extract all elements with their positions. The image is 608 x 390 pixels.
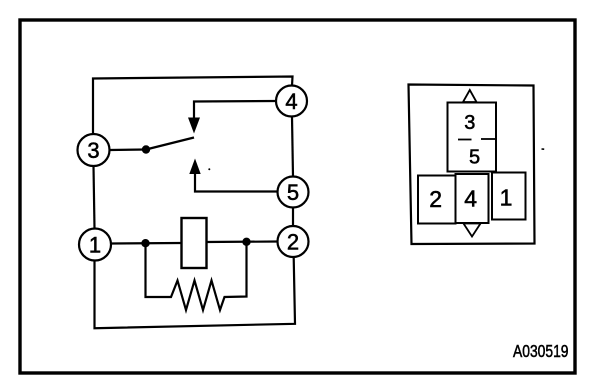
svg-text:4: 4 (285, 89, 297, 114)
svg-text:1: 1 (500, 185, 513, 211)
wire: terminal 3 bottom to terminal 1 top (94, 166, 95, 229)
connector cavity pin 2 (418, 176, 456, 224)
lower fixed contact arrow (points up) (189, 159, 200, 175)
relay coil (rectangle) (182, 218, 207, 268)
connector cavity pin 1 (492, 173, 526, 220)
connector outline (409, 85, 535, 245)
svg-text:3: 3 (87, 138, 99, 163)
wire: terminal 4 bottom to terminal 5 top (292, 117, 293, 177)
connector cavity pin 4 (456, 174, 489, 223)
wire: lower fixed contact to terminal 5 (195, 174, 277, 192)
resistor (zigzag) in parallel with coil (146, 242, 247, 310)
connector cavity for pins 3/5 (448, 103, 497, 172)
terminal 2 (278, 226, 309, 257)
divider dash between 3 and 5 (458, 139, 472, 141)
upper fixed contact arrow (points down) (188, 118, 200, 134)
junction dot: switch pivot (142, 145, 150, 153)
terminal 4 (276, 86, 307, 117)
junction dot right of coil (242, 238, 250, 246)
svg-text:2: 2 (429, 186, 442, 212)
wire: terminal 1 to coil (112, 242, 182, 245)
wire: terminal 4 to upper fixed contact (194, 101, 276, 118)
connector keying arrow down (open triangle) (464, 224, 481, 237)
scan speck near switch (208, 168, 210, 170)
relay switch movable contact blade (146, 138, 194, 150)
terminal 5 (278, 177, 309, 208)
svg-text:4: 4 (464, 186, 477, 212)
svg-text:5: 5 (287, 180, 299, 205)
svg-text:3: 3 (464, 112, 475, 134)
svg-text:5: 5 (469, 147, 480, 169)
wire top: terminal 3 to terminal 4 (93, 77, 293, 135)
wire bottom: terminal 1 to terminal 2 (95, 258, 296, 329)
junction dot left of coil (141, 239, 149, 247)
connector keying arrow up (open triangle) (463, 90, 477, 102)
wire: coil to terminal 2 (206, 240, 278, 243)
svg-text:1: 1 (89, 233, 101, 258)
svg-text:2: 2 (287, 230, 299, 255)
wire: terminal 3 to switch pivot (110, 148, 146, 151)
svg-text:A030519: A030519 (513, 341, 569, 361)
wire: terminal 5 bottom to terminal 2 top (292, 208, 294, 227)
scan dash right of connector (542, 148, 545, 150)
terminal 1 (79, 229, 111, 261)
terminal 3 (78, 134, 110, 166)
